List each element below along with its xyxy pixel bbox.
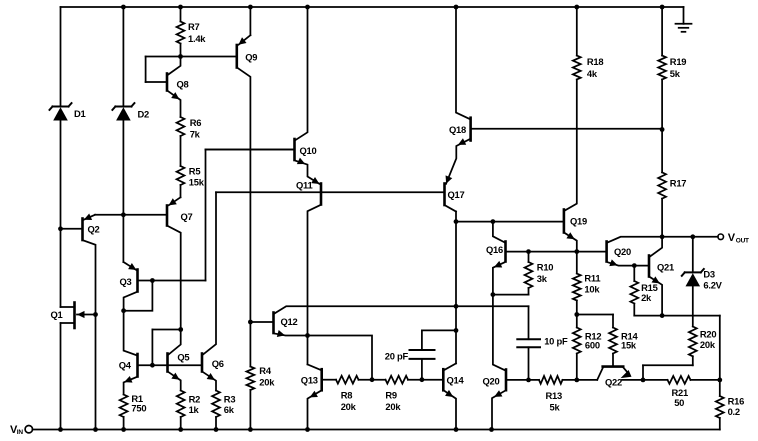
svg-text:R17: R17 (670, 178, 686, 189)
svg-text:R5: R5 (189, 166, 201, 177)
svg-text:R18: R18 (587, 56, 603, 67)
svg-text:R6: R6 (190, 117, 202, 128)
svg-text:6.2V: 6.2V (703, 280, 722, 291)
svg-text:750: 750 (131, 403, 146, 414)
svg-text:Q20: Q20 (614, 246, 631, 257)
svg-text:20k: 20k (341, 401, 357, 412)
svg-text:R11: R11 (584, 273, 600, 284)
svg-text:R7: R7 (188, 21, 200, 32)
svg-text:15k: 15k (189, 176, 205, 187)
svg-text:Q2: Q2 (88, 224, 100, 235)
svg-text:Q17: Q17 (448, 189, 465, 200)
svg-text:6k: 6k (224, 404, 235, 415)
svg-text:OUT: OUT (736, 237, 749, 244)
svg-text:IN: IN (17, 429, 24, 436)
svg-text:7k: 7k (190, 129, 201, 140)
svg-text:Q5: Q5 (177, 351, 189, 362)
svg-text:R10: R10 (537, 262, 553, 273)
svg-text:1k: 1k (189, 404, 200, 415)
svg-text:Q3: Q3 (120, 276, 132, 287)
svg-text:Q6: Q6 (212, 358, 224, 369)
svg-text:Q4: Q4 (119, 359, 132, 370)
svg-text:10k: 10k (584, 283, 600, 294)
svg-text:D1: D1 (74, 108, 86, 119)
svg-text:R3: R3 (224, 394, 236, 405)
svg-text:50: 50 (674, 397, 684, 408)
svg-text:Q14: Q14 (447, 375, 465, 386)
svg-text:Q16: Q16 (486, 244, 503, 255)
svg-text:15k: 15k (621, 340, 637, 351)
svg-text:Q10: Q10 (300, 145, 317, 156)
svg-text:4k: 4k (587, 68, 598, 79)
svg-text:5k: 5k (550, 402, 561, 413)
svg-text:Q8: Q8 (177, 79, 189, 90)
svg-text:R2: R2 (189, 394, 201, 405)
svg-text:5k: 5k (670, 68, 681, 79)
svg-text:Q1: Q1 (51, 309, 63, 320)
svg-text:R19: R19 (670, 56, 686, 67)
svg-text:Q11: Q11 (296, 180, 312, 191)
svg-text:3k: 3k (537, 273, 548, 284)
svg-text:20 pF: 20 pF (385, 350, 409, 361)
svg-text:Q9: Q9 (245, 52, 257, 63)
svg-text:Q19: Q19 (570, 216, 587, 227)
svg-text:20k: 20k (259, 377, 275, 388)
svg-text:10 pF: 10 pF (544, 335, 568, 346)
svg-text:1.4k: 1.4k (188, 33, 206, 44)
svg-text:20k: 20k (700, 339, 716, 350)
svg-text:600: 600 (585, 340, 600, 351)
svg-text:Q21: Q21 (657, 262, 674, 273)
svg-text:R4: R4 (259, 365, 272, 376)
svg-text:2k: 2k (641, 292, 652, 303)
svg-text:D2: D2 (138, 109, 150, 120)
svg-text:R16: R16 (728, 396, 744, 407)
svg-text:R9: R9 (385, 390, 397, 401)
svg-text:R8: R8 (341, 390, 353, 401)
svg-text:Q20: Q20 (483, 376, 500, 387)
svg-text:V: V (728, 232, 736, 244)
svg-text:0.2: 0.2 (728, 406, 740, 417)
svg-text:Q22: Q22 (605, 377, 622, 388)
svg-text:Q13: Q13 (301, 375, 318, 386)
svg-text:D3: D3 (703, 269, 715, 280)
svg-text:Q18: Q18 (449, 124, 466, 135)
svg-text:Q12: Q12 (281, 316, 298, 327)
svg-text:R13: R13 (546, 390, 562, 401)
svg-text:20k: 20k (385, 401, 401, 412)
svg-text:Q7: Q7 (181, 211, 193, 222)
